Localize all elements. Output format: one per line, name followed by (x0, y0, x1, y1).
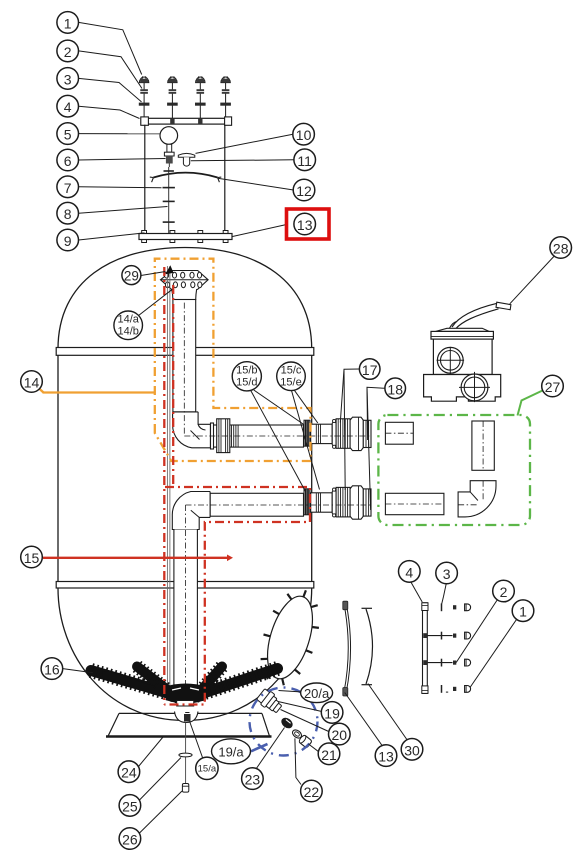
callout 13 (294, 213, 316, 235)
bottom drain boss (175, 712, 199, 723)
center rod items 7/8 (168, 167, 170, 234)
standpipe (vertical riser) (173, 300, 196, 412)
callout 30 (401, 739, 423, 761)
svg-text:19: 19 (324, 705, 340, 721)
leader 16 (63, 669, 93, 673)
callout 4b (399, 561, 421, 583)
lateral hub (165, 684, 206, 704)
callout 9 (57, 229, 79, 251)
standpipe elbow (socket) (173, 412, 211, 448)
red leader 15 (43, 557, 227, 559)
callout 22 (301, 780, 323, 802)
bulkhead fitting upper port (304, 420, 311, 447)
callout 14a-b (114, 311, 143, 340)
lateral arm right mid (194, 674, 263, 699)
callout 10 (293, 123, 315, 145)
callout 20a (301, 683, 333, 703)
leader 30 (368, 684, 407, 741)
callout 17 (359, 359, 380, 380)
valve front port (461, 374, 488, 401)
callout 20 (329, 723, 351, 745)
union flange ring upper (332, 422, 336, 446)
callout 2b (493, 580, 515, 602)
red group box item 15 (163, 267, 165, 705)
lower elbow (socket) (172, 492, 210, 530)
gauge nut item 6 (166, 156, 173, 164)
svg-text:15/b: 15/b (236, 365, 257, 377)
svg-text:26: 26 (122, 831, 138, 847)
callout 29 (122, 266, 141, 285)
callout 28 (550, 237, 572, 259)
svg-text:12: 12 (296, 183, 312, 199)
svg-text:19/a: 19/a (218, 745, 244, 760)
drain plug 15/a (184, 714, 191, 722)
callout 2 (57, 40, 79, 62)
leader 24 (139, 737, 164, 767)
callout 27 (542, 375, 564, 397)
clamp bar item 4 (bottom right) (423, 603, 428, 694)
lateral arm left mid (106, 675, 178, 698)
svg-text:7: 7 (64, 180, 72, 196)
leader lines 10-13 (196, 134, 293, 153)
leaders 18 (367, 387, 385, 440)
drain bolt axis (185, 723, 187, 784)
lid cylinder walls (144, 125, 146, 234)
manhole flange ring (ellipse with studs) (259, 591, 321, 684)
svg-text:3: 3 (443, 566, 451, 582)
valve top flange (431, 331, 493, 339)
leader 28 (510, 257, 554, 304)
orange leader 14 (39, 388, 44, 393)
red highlight box item 13 (287, 209, 330, 239)
leader 2 (bottom right) (456, 600, 497, 663)
lateral arm right inner (198, 667, 222, 695)
callout 15b-d (232, 362, 261, 391)
nut item 2 row 2 (453, 634, 456, 638)
svg-text:23: 23 (245, 772, 261, 788)
svg-text:25: 25 (122, 798, 138, 814)
callout 1b (512, 600, 534, 622)
svg-text:15/d: 15/d (236, 377, 257, 389)
tank cylinder wall left (57, 355, 59, 581)
valve left port (437, 347, 463, 373)
lateral arm left outer item 16 (91, 671, 178, 697)
outside pipe stub lower (311, 493, 333, 512)
lid bolts items 1-3 (143, 83, 145, 119)
svg-text:4: 4 (405, 564, 413, 580)
leader 4 (bottom right) (411, 582, 422, 602)
pin item 3 row 4 (441, 685, 443, 693)
drain cap item 21 (298, 734, 312, 748)
gasket strip item 13 (curved band) (344, 604, 348, 692)
lateral arm right outer (194, 669, 278, 697)
adapter nipple (in 27) (385, 422, 413, 444)
pin item 3 row 3 (441, 659, 443, 667)
union nut lower (350, 486, 363, 519)
nut item 2 row 3 (453, 661, 456, 665)
screw item 26 (182, 784, 188, 793)
callout 7 (57, 176, 79, 198)
base stand skirt (119, 712, 262, 714)
pipe centerlines (183, 303, 185, 436)
pressure gauge item 5 (160, 127, 178, 145)
svg-text:9: 9 (64, 233, 72, 249)
leader 1 (bottom right) (470, 620, 517, 688)
callout 25 (119, 795, 141, 817)
callout 11 (294, 149, 316, 171)
svg-text:2: 2 (500, 584, 508, 600)
lid dome item 12 (153, 173, 217, 178)
tank vessel outline (58, 248, 312, 350)
leader 26 (140, 791, 183, 833)
leaders 17 (340, 369, 359, 423)
svg-text:27: 27 (545, 379, 561, 395)
tank upper seam flange (56, 348, 314, 356)
green leader 27 (518, 391, 543, 416)
leader 23 (256, 728, 285, 770)
tank cylinder wall right (311, 355, 313, 581)
callout 23 (242, 768, 264, 790)
bottom riser pipe (174, 530, 198, 687)
leader 3 (bottom right) (442, 584, 446, 604)
svg-text:15/e: 15/e (280, 377, 301, 389)
cap item 1 row 2 (465, 632, 471, 639)
union ribbed body lower (336, 487, 350, 517)
lower collector pipe (210, 493, 303, 516)
svg-text:14: 14 (24, 374, 40, 390)
bolt row 2 (427, 635, 452, 637)
callout 5 (57, 123, 79, 145)
svg-text:1: 1 (64, 15, 72, 31)
leader 13 (bottom) (345, 693, 383, 747)
lateral arm left inner (137, 667, 174, 696)
svg-text:13: 13 (297, 217, 313, 233)
tank lower seam flange (56, 582, 314, 589)
svg-text:20/a: 20/a (304, 686, 330, 701)
valve body (433, 339, 492, 374)
svg-text:14/b: 14/b (117, 326, 138, 338)
leader lines top-left 1-9 (79, 22, 142, 74)
callout 3b (436, 562, 458, 584)
callout 24 (118, 761, 140, 783)
hub lower collar (177, 701, 194, 707)
callout 6 (57, 149, 79, 171)
top diffuser item 29 (161, 271, 209, 300)
leader 22 (295, 738, 301, 784)
callout 21 (318, 743, 340, 765)
cap item 1 row 1 (465, 604, 471, 611)
upper delivery pipe (211, 425, 304, 447)
svg-text:18: 18 (387, 381, 403, 397)
callout 14 (21, 371, 43, 393)
drain washer item 22 (291, 728, 303, 740)
callout 15a (196, 757, 218, 779)
drain hose adapter items 19/20/a (256, 687, 285, 715)
bulkhead fitting lower port (304, 488, 311, 515)
callout 18 (385, 378, 406, 399)
callout 1 (57, 12, 79, 34)
svg-text:13: 13 (378, 749, 394, 765)
callout 19a (212, 739, 251, 764)
washer item 25 (179, 753, 192, 757)
outside pipe stub upper (311, 424, 333, 443)
elbow fitting (in 27) (458, 481, 496, 517)
svg-text:5: 5 (64, 127, 72, 143)
lid bottom flange item 9 (142, 231, 147, 243)
cap item 1 row 3 (465, 659, 471, 666)
union flange ring lower (332, 491, 336, 515)
svg-text:8: 8 (64, 206, 72, 222)
callout 26 (119, 828, 141, 850)
union ribbed body upper (336, 419, 350, 449)
pin item 3 row 2 (441, 632, 443, 640)
green group box item 27 (378, 415, 530, 525)
union item 15/b inside (211, 423, 214, 449)
callout 4 (57, 95, 79, 117)
blue leader to 19/a (251, 744, 268, 751)
blue highlight circle (drain group) (250, 688, 318, 756)
svg-text:14/a: 14/a (117, 314, 139, 326)
union end ring lower (363, 489, 371, 516)
svg-text:21: 21 (321, 747, 337, 763)
leaders 15/b 15/d (254, 390, 304, 425)
svg-text:4: 4 (64, 99, 72, 115)
union end ring upper (363, 420, 371, 447)
orange group box item 14 (155, 259, 311, 461)
svg-text:30: 30 (404, 742, 420, 758)
leader 19 (278, 702, 322, 712)
svg-text:11: 11 (297, 153, 312, 169)
leader 29 (141, 272, 166, 276)
callout 16 (41, 658, 63, 680)
callout 3 (57, 68, 79, 90)
leader 20 (281, 710, 329, 732)
svg-text:22: 22 (304, 784, 320, 800)
leader 20/a (279, 691, 301, 692)
leaders 15/c 15/e (294, 390, 318, 423)
vertical pipe stub (in 27) (472, 421, 494, 470)
nut item 2 row 4 (453, 687, 456, 691)
leader 25 (140, 758, 182, 801)
cap item 1 row 4 (465, 686, 471, 693)
svg-text:15/a: 15/a (198, 763, 217, 774)
leader 21 (309, 744, 319, 752)
valve handle (452, 303, 498, 327)
valve lid (436, 328, 489, 331)
tank bottom dome (58, 588, 312, 721)
sight tube (thin) (166, 266, 168, 688)
svg-text:29: 29 (124, 269, 139, 284)
leader 14/a 14/b (138, 289, 172, 315)
svg-text:15/c: 15/c (281, 365, 302, 377)
callout 12 (293, 179, 315, 201)
nut item 2 row 1 (453, 605, 456, 609)
svg-text:28: 28 (553, 240, 569, 256)
callout 13b (375, 745, 397, 767)
svg-text:24: 24 (121, 765, 137, 781)
pin item 3 row 1 (441, 603, 443, 611)
svg-text:10: 10 (296, 127, 312, 143)
callout 19 (321, 702, 343, 724)
callout 8 (57, 202, 79, 224)
union nut upper (350, 417, 363, 450)
leader 15/a (190, 723, 203, 758)
svg-text:2: 2 (64, 44, 72, 60)
long pipe stub (in 27) (385, 493, 444, 514)
lid clamp flange item 4 (141, 118, 231, 124)
callout 15c-e (277, 362, 306, 391)
svg-text:3: 3 (64, 71, 72, 87)
svg-text:15: 15 (24, 550, 40, 566)
svg-text:16: 16 (44, 662, 60, 678)
bolt row 3 (427, 662, 452, 664)
callout 15 (21, 546, 43, 568)
svg-text:20: 20 (332, 727, 348, 743)
svg-text:17: 17 (362, 362, 378, 378)
clamp item 30 (curved strap) (366, 609, 373, 684)
drain nut item 23 (279, 716, 294, 731)
svg-text:1: 1 (519, 604, 527, 620)
air relief valve items 10/11 (178, 153, 195, 157)
valve base block (424, 375, 501, 402)
svg-text:6: 6 (64, 153, 72, 169)
